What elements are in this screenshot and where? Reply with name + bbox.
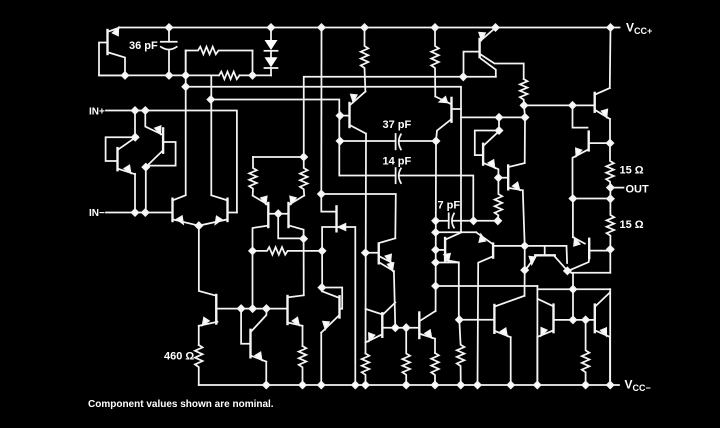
node R6 right <box>319 248 326 255</box>
wire y272 <box>568 271 573 320</box>
transistor Q24 <box>381 313 383 337</box>
node y105-x572 <box>569 102 576 109</box>
wire OUT dash <box>614 187 624 189</box>
capacitor C1 36pF <box>168 28 170 42</box>
svg-text:460 Ω: 460 Ω <box>164 351 194 363</box>
wire y75 left <box>99 74 219 76</box>
transistor Q30 <box>573 105 588 127</box>
transistor Q22 <box>340 115 348 117</box>
node rail2-x266 <box>263 382 270 389</box>
svg-text:OUT: OUT <box>626 183 650 195</box>
node y75-Q1col <box>122 72 129 79</box>
transistor Q29 <box>609 28 612 89</box>
node rail2-x510 <box>507 382 514 389</box>
node x525-y117 <box>522 114 529 121</box>
transistor Q16 <box>552 305 554 333</box>
wire IN- <box>106 212 172 214</box>
svg-text:IN−: IN− <box>89 208 105 219</box>
wire x322 lower <box>321 251 323 292</box>
node x365-Q23base <box>362 249 369 256</box>
svg-text:7 pF: 7 pF <box>438 199 461 211</box>
wire x135 upper <box>134 111 136 138</box>
node x498-y177 <box>495 174 502 181</box>
node x499-y130 <box>496 127 503 134</box>
wire x394 lower <box>394 271 395 328</box>
wire x304 down <box>303 239 305 296</box>
wire y75 right <box>240 74 272 76</box>
wire y262 <box>436 262 459 264</box>
transistor Q23 <box>365 252 377 254</box>
wire R1 left leg <box>185 51 187 76</box>
node bus87-x186 <box>182 83 189 90</box>
node rail2-x460 <box>457 382 464 389</box>
diode D2 <box>270 51 272 57</box>
node x436-y250 <box>432 247 439 254</box>
resistor R6 <box>253 247 323 255</box>
node y270 right <box>564 268 571 275</box>
transistor Q15 <box>572 199 574 238</box>
resistor R14 <box>402 328 410 385</box>
node y289-x573 <box>570 286 577 293</box>
node x436-y232 <box>432 229 439 236</box>
node y308-x266 <box>263 305 270 312</box>
resistor R1 <box>186 47 253 55</box>
wire y289 <box>537 288 610 290</box>
svg-text:15 Ω: 15 Ω <box>620 219 644 231</box>
wire x436 column <box>435 141 437 311</box>
node 7pF left <box>432 218 439 225</box>
node IN-a <box>132 209 139 216</box>
node x524-y245 <box>521 243 528 250</box>
transistor Q20 dual collector <box>478 39 480 57</box>
wire R1 right leg <box>252 51 254 76</box>
node rail2-x435 <box>432 382 439 389</box>
wire y117 <box>461 116 525 118</box>
node y157-x304 <box>300 154 307 161</box>
node R6 left <box>249 248 256 255</box>
node x340 Q22 base <box>337 112 344 119</box>
node rail-VCC+ <box>607 24 614 31</box>
transistor Q27 <box>476 232 492 243</box>
node rail2-x477 <box>474 382 481 389</box>
resistor R2 <box>219 72 240 80</box>
wire x524 column <box>523 190 525 295</box>
node IN+a <box>132 107 139 114</box>
wire y105 <box>524 104 594 106</box>
wire x135 lower <box>134 174 136 213</box>
transistor Q5 diff left <box>171 199 173 221</box>
wire bias bus y327 <box>384 327 419 329</box>
wire y157 <box>253 156 304 158</box>
node x524-y105 <box>521 102 528 109</box>
svg-text:Component values shown are nom: Component values shown are nominal. <box>88 399 274 410</box>
diode D1 <box>270 28 272 41</box>
wire x499 <box>498 117 500 130</box>
node IN+b <box>142 107 149 114</box>
node y308-x241 <box>238 305 245 312</box>
wire x365 column <box>365 134 368 354</box>
resistor R4 <box>300 157 308 196</box>
wire bus y99 <box>211 100 339 176</box>
node IN-b <box>142 209 149 216</box>
node y319 <box>456 316 463 323</box>
node rail-R12 <box>432 24 439 31</box>
transistor Q11 <box>321 194 335 212</box>
node y75-C1 <box>166 72 173 79</box>
node x436-y262 <box>432 259 439 266</box>
resistor R9 <box>495 178 503 221</box>
wire x321 upper <box>320 28 322 195</box>
node y198 right <box>607 196 614 203</box>
node C2 right <box>433 138 440 145</box>
wire top rail VCC+ <box>119 27 620 29</box>
node y75-R1right <box>249 72 256 79</box>
node rail-diodes <box>268 24 275 31</box>
node x135-Q3 <box>132 134 139 141</box>
wire mirror base bus <box>555 319 594 321</box>
wire x525 <box>524 105 525 163</box>
node rail-Q20 <box>492 24 499 31</box>
node bus99-x211 <box>208 96 215 103</box>
node OUT <box>607 184 614 191</box>
transistor Q7 <box>215 295 217 324</box>
transistor Q18 <box>500 177 507 179</box>
resistor R17 15ohm lower <box>607 199 615 250</box>
node tail <box>196 222 203 229</box>
node mbus-x586 <box>582 317 589 324</box>
resistor R13 <box>431 353 439 385</box>
node rail2-x355 <box>352 382 359 389</box>
svg-text:37 pF: 37 pF <box>383 119 412 131</box>
node rail2-x585 <box>582 382 589 389</box>
node 7pF right <box>495 218 502 225</box>
wire x537 <box>536 286 538 385</box>
wire x253 mid <box>252 251 254 309</box>
node rail2-x302 <box>299 382 306 389</box>
node rail2-x365 <box>362 382 369 389</box>
node mbus-x573 <box>570 317 577 324</box>
capacitor C2 37pF <box>340 140 396 142</box>
transistor Q19 <box>475 131 499 156</box>
resistor R11 <box>362 354 370 386</box>
node C2 left <box>337 138 344 145</box>
svg-text:36 pF: 36 pF <box>129 40 158 52</box>
wire y232 <box>436 231 477 233</box>
svg-text:IN+: IN+ <box>89 106 105 117</box>
transistor Q13 <box>241 309 249 344</box>
transistor Q25 <box>418 313 420 339</box>
node x304 diode <box>300 235 307 242</box>
node bus76-x463 <box>460 74 467 81</box>
capacitor C3 14pF <box>340 175 396 177</box>
node y198 left <box>570 195 577 202</box>
wire y198 <box>573 198 611 200</box>
node mirror base <box>275 210 282 217</box>
node 7pF mid <box>470 218 477 225</box>
wire mirror base down <box>278 214 303 239</box>
node y117-x499 <box>496 114 503 121</box>
wire x145 <box>145 167 147 212</box>
node rail2-x406 <box>403 382 410 389</box>
svg-text:14 pF: 14 pF <box>383 155 412 167</box>
node y327-x395 <box>392 324 399 331</box>
transistor Q21 <box>435 97 451 105</box>
transistor Q12 <box>322 288 342 309</box>
transistor Q14 <box>525 246 567 263</box>
wire base bus y308 <box>217 308 286 310</box>
resistor R12 <box>431 28 439 97</box>
wire y194 <box>321 194 396 238</box>
node y75-R1left <box>182 72 189 79</box>
node y308-x253 <box>249 305 256 312</box>
svg-text:15 Ω: 15 Ω <box>620 165 644 177</box>
resistor R10 <box>361 28 369 92</box>
wire bus y87 <box>186 87 461 233</box>
transistor Q4 <box>162 128 164 152</box>
transistor Q9 mirror right <box>287 203 289 227</box>
transistor Q8 mirror left <box>267 203 269 227</box>
wire bus y286 <box>436 285 538 287</box>
transistor Q10 <box>286 296 288 324</box>
resistor R5 <box>299 346 307 385</box>
transistor Q6 diff right <box>226 199 228 221</box>
node x524-y270 <box>521 267 528 274</box>
resistor R15 <box>457 320 465 385</box>
transistor Q3 <box>116 148 118 170</box>
transistor Q28 <box>493 305 495 333</box>
node y143 <box>607 140 614 147</box>
node x321-y194 <box>318 191 325 198</box>
resistor R16 15ohm upper <box>606 143 614 188</box>
node rail-x321 <box>318 24 325 31</box>
node x322-y287 <box>319 284 326 291</box>
node x145-Q4 <box>143 164 150 171</box>
wire IN+ <box>106 111 237 213</box>
transistor Q26 <box>436 249 444 251</box>
node rail2-x610 <box>607 382 614 389</box>
transistor Q17 <box>594 305 596 333</box>
resistor R8 <box>520 79 528 105</box>
node rail2-x537 <box>534 382 541 389</box>
wire tail <box>199 226 216 296</box>
node rail-36pF <box>166 24 173 31</box>
node rail2-x321 <box>318 382 325 389</box>
resistor R7 <box>582 320 590 385</box>
wire bottom rail VCC- <box>199 384 619 386</box>
wire vertical x211 <box>210 75 212 195</box>
resistor R460 <box>195 345 203 385</box>
wire y319 <box>459 319 493 321</box>
resistor R3 <box>249 157 257 196</box>
capacitor C4 7pF <box>436 220 449 222</box>
wire bus y76 <box>304 77 496 157</box>
transistor Q1 <box>106 30 108 54</box>
node x436-y286 <box>432 283 439 290</box>
node y249 <box>607 246 614 253</box>
node y327-x406 <box>403 324 410 331</box>
node rail-R10 <box>361 24 368 31</box>
wire x610 lower <box>609 249 611 272</box>
wire vertical x186 <box>185 51 187 196</box>
